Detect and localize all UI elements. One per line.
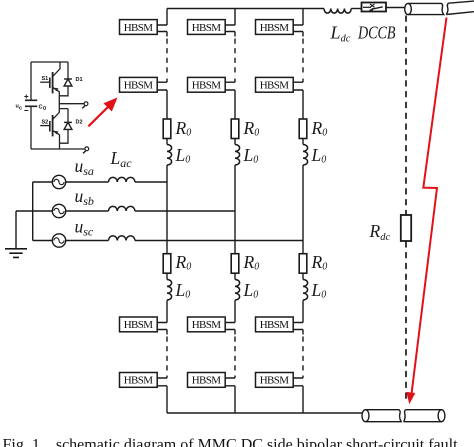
- HBSM block leg1 row2: [120, 77, 158, 92]
- wire left rail: [30, 62, 32, 149]
- inductor Lac phase b: [109, 206, 135, 211]
- wire phase b to leg2: [135, 210, 235, 212]
- svg-text:usc: usc: [75, 217, 94, 239]
- wire leg1 R0-L0 upper: [166, 139, 168, 145]
- wire S2 emitter to bottom rail: [59, 143, 61, 149]
- transistor S1: [40, 62, 60, 96]
- svg-text:L0: L0: [243, 280, 259, 301]
- wire phase c to leg3: [135, 240, 303, 242]
- HBSM block leg2 row2: [188, 77, 226, 92]
- wire top DC bus: [167, 8, 324, 10]
- wire leg3 dashed lower: [302, 337, 304, 375]
- wire leg2 lower arm: [234, 300, 236, 322]
- red arrow pointing to HBSM block: [88, 103, 112, 126]
- svg-text:HBSM: HBSM: [124, 319, 154, 331]
- wire leg3 dashed upper: [302, 39, 304, 78]
- svg-text:R0: R0: [243, 252, 260, 273]
- wire leg3 row4 stubs: [293, 376, 303, 386]
- resistor Rdc: [401, 215, 411, 241]
- wire leg2 to bottom bus: [234, 386, 236, 413]
- svg-text:Ldc: Ldc: [330, 23, 351, 45]
- diode D2: [60, 109, 72, 144]
- wire leg2 dashed upper: [234, 39, 236, 78]
- inductor L0 leg2 upper: [235, 145, 240, 166]
- HBSM block leg3 row2: [256, 77, 294, 92]
- svg-text:HBSM: HBSM: [124, 375, 154, 387]
- HBSM block leg2 row3: [188, 317, 226, 332]
- wire leg1 dashed upper: [166, 39, 168, 78]
- wire leg2 upper arm: [234, 90, 236, 119]
- inductor L0 leg3 lower: [303, 280, 308, 301]
- svg-text:usb: usb: [75, 186, 94, 208]
- DCCB breaker: [362, 3, 387, 12]
- wire phase a to leg1: [135, 181, 167, 183]
- svg-text:HBSM: HBSM: [192, 319, 222, 331]
- svg-text:R0: R0: [175, 118, 192, 139]
- svg-text:Fig. 1. schematic diagram of: Fig. 1. schematic diagram of MMC DC side…: [3, 437, 459, 447]
- svg-text:Rdc: Rdc: [369, 221, 391, 243]
- wire leg1 dashed lower: [166, 337, 168, 375]
- wire bottom rail: [31, 148, 85, 150]
- wire leg1 to bottom bus: [166, 386, 168, 413]
- source usc: [52, 234, 65, 247]
- wire leg3 R0-L0 lower: [302, 273, 304, 279]
- svg-text:C: C: [39, 105, 43, 111]
- wire leg3 R0-L0 upper: [302, 139, 304, 145]
- red arrowhead: [104, 98, 118, 112]
- svg-text:R0: R0: [175, 252, 192, 273]
- wire dashed DC line upper: [405, 16, 407, 215]
- capacitor minus sign: [24, 110, 28, 112]
- wire leg2 row4 stubs: [225, 376, 235, 386]
- svg-text:HBSM: HBSM: [192, 375, 222, 387]
- wire leg2 row3 stubs: [225, 323, 235, 335]
- wire leg1 lower arm: [166, 300, 168, 322]
- svg-text:HBSM: HBSM: [260, 375, 290, 387]
- inductor Ldc: [324, 9, 351, 14]
- wire leg3 from top bus: [302, 9, 304, 26]
- wire leg2 dashed lower: [234, 337, 236, 375]
- wire phase b to Lac: [66, 210, 109, 212]
- wire leg3 row1 stubs: [293, 25, 303, 37]
- fault lightning bolt red: [411, 18, 446, 397]
- HBSM block leg1 row1: [120, 20, 158, 35]
- inductor Lac phase a: [109, 177, 135, 182]
- source usb: [52, 204, 65, 217]
- HBSM block leg2 row4: [188, 373, 226, 388]
- svg-text:c: c: [19, 106, 22, 112]
- svg-text:HBSM: HBSM: [260, 22, 290, 34]
- HBSM block leg3 row4: [256, 373, 294, 388]
- wire leg3 row2 stubs: [293, 79, 303, 91]
- HBSM block leg2 row1: [188, 20, 226, 35]
- svg-text:D1: D1: [76, 77, 83, 83]
- svg-text:HBSM: HBSM: [260, 80, 290, 92]
- svg-text:Lac: Lac: [110, 148, 133, 170]
- svg-text:L0: L0: [175, 145, 191, 166]
- inductor L0 leg1 upper: [167, 145, 172, 166]
- wire leg1 R0-L0 lower: [166, 273, 168, 279]
- wire leg1 from top bus: [166, 9, 168, 26]
- wire phase c left: [33, 240, 53, 242]
- transistor S2: [40, 109, 59, 144]
- diode D1: [59, 62, 72, 96]
- svg-text:usa: usa: [75, 156, 94, 178]
- wire dashed DC line lower: [405, 241, 407, 400]
- wire phase a to Lac: [66, 181, 109, 183]
- cable bottom negative pole segment 1: [362, 410, 401, 422]
- svg-text:L0: L0: [243, 145, 259, 166]
- wire leg2 row1 stubs: [225, 25, 235, 37]
- cable top positive pole segment 1: [405, 3, 444, 14]
- HBSM block leg3 row3: [256, 317, 294, 332]
- wire leg3 lower arm: [302, 300, 304, 322]
- wire Ldc to DCCB: [351, 8, 361, 10]
- svg-text:HBSM: HBSM: [260, 319, 290, 331]
- svg-text:L0: L0: [311, 145, 327, 166]
- wire ground stem: [15, 211, 17, 249]
- resistor R0 leg1 lower: [163, 254, 171, 274]
- svg-text:HBSM: HBSM: [192, 80, 222, 92]
- wire top rail: [31, 61, 68, 63]
- wire leg1 row4 stubs: [157, 376, 167, 386]
- wire leg2 from top bus: [234, 9, 236, 26]
- cable bottom negative pole segment 2: [404, 410, 445, 422]
- svg-text:0: 0: [43, 106, 46, 112]
- wire leg2 R0-L0 upper: [234, 139, 236, 145]
- capacitor plus sign: [24, 95, 28, 99]
- wire mid node and output: [59, 96, 68, 109]
- terminal bottom: [85, 147, 89, 151]
- terminal mid: [84, 102, 88, 106]
- resistor R0 leg3 upper: [299, 119, 307, 139]
- svg-text:HBSM: HBSM: [124, 22, 154, 34]
- wire leg1 mid: [166, 165, 168, 254]
- svg-text:R0: R0: [311, 252, 328, 273]
- svg-text:L0: L0: [175, 280, 191, 301]
- wire phase b left with ground tap: [16, 210, 52, 212]
- wire leg2 mid: [234, 165, 236, 254]
- resistor R0 leg2 lower: [231, 254, 239, 274]
- svg-text:HBSM: HBSM: [192, 22, 222, 34]
- ground symbol: [5, 249, 27, 258]
- svg-text:R0: R0: [243, 118, 260, 139]
- svg-text:HBSM: HBSM: [124, 80, 154, 92]
- fault arrowhead red: [406, 392, 415, 404]
- wire leg1 row3 stubs: [157, 323, 167, 335]
- source usa: [52, 175, 65, 188]
- HBSM block leg3 row1: [256, 20, 294, 35]
- wire leg3 mid: [302, 165, 304, 254]
- wire DCCB to cable: [386, 7, 405, 9]
- HBSM block leg1 row4: [120, 373, 158, 388]
- resistor R0 leg1 upper: [163, 119, 171, 139]
- wire leg2 row2 stubs: [225, 79, 235, 91]
- wire bottom DC bus: [167, 412, 362, 414]
- wire ac bus vertical: [32, 182, 34, 241]
- svg-text:R0: R0: [311, 118, 328, 139]
- inductor L0 leg3 upper: [303, 145, 308, 166]
- wire leg1 upper arm: [166, 90, 168, 119]
- wire leg3 to bottom bus: [302, 386, 304, 413]
- inductor L0 leg1 lower: [167, 280, 172, 301]
- svg-text:S2: S2: [42, 120, 49, 126]
- wire leg1 row1 stubs: [157, 25, 167, 37]
- wire phase c to Lac: [66, 240, 109, 242]
- wire leg2 R0-L0 lower: [234, 273, 236, 279]
- inductor L0 leg2 lower: [235, 280, 240, 301]
- resistor R0 leg3 lower: [299, 254, 307, 274]
- cable top positive pole segment 2: [446, 1, 474, 14]
- resistor R0 leg2 upper: [231, 119, 239, 139]
- svg-text:DCCB: DCCB: [357, 23, 395, 43]
- inductor Lac phase c: [109, 236, 135, 241]
- wire leg3 row3 stubs: [293, 323, 303, 335]
- wire phase a left: [33, 181, 53, 183]
- svg-text:L0: L0: [311, 280, 327, 301]
- wire leg3 upper arm: [302, 90, 304, 119]
- HBSM block leg1 row3: [120, 317, 158, 332]
- svg-text:D2: D2: [76, 120, 83, 126]
- svg-text:S1: S1: [42, 76, 49, 82]
- capacitor C0: [25, 100, 37, 106]
- wire leg1 row2 stubs: [157, 79, 167, 91]
